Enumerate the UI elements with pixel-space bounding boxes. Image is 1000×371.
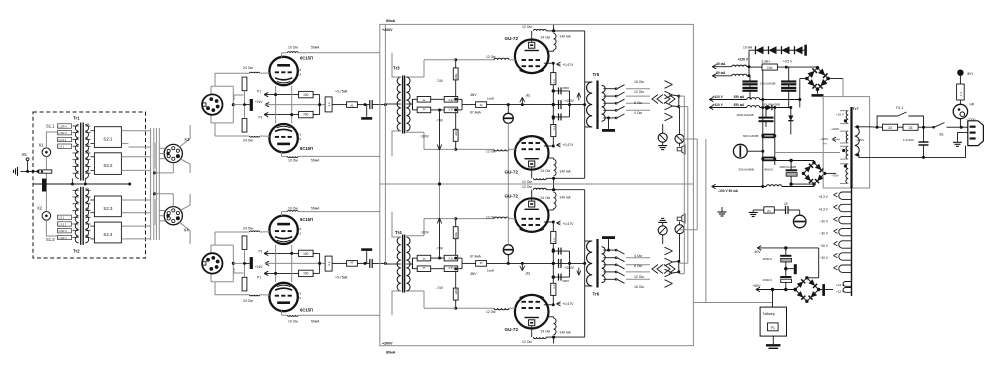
svg-text:1б: 1б bbox=[784, 202, 788, 206]
svg-text:1:3 1: 1:3 1 bbox=[58, 145, 64, 149]
svg-text:~120V: ~120V bbox=[820, 137, 829, 141]
svg-text:4000,0: 4000,0 bbox=[764, 168, 773, 172]
svg-text:10н: 10н bbox=[767, 66, 773, 70]
svg-text:24 Ом: 24 Ом bbox=[541, 169, 551, 173]
svg-text:~30 V: ~30 V bbox=[820, 256, 829, 260]
svg-text:50мА: 50мА bbox=[311, 320, 320, 324]
svg-text:+16V: +16V bbox=[255, 265, 263, 269]
svg-text:Тr2: Тr2 bbox=[73, 249, 80, 254]
svg-text:4000,0х450В: 4000,0х450В bbox=[780, 165, 797, 169]
svg-text:1:1/R 4: 1:1/R 4 bbox=[58, 236, 67, 240]
svg-text:Тr1: Тr1 bbox=[73, 116, 80, 121]
svg-text:4 Ом: 4 Ом bbox=[634, 111, 642, 115]
svg-text:-100V: -100V bbox=[420, 135, 430, 139]
svg-text:4000,0х400В: 4000,0х400В bbox=[737, 113, 754, 117]
svg-text:~30 V: ~30 V bbox=[820, 231, 829, 235]
svg-text:1:3 1: 1:3 1 bbox=[58, 216, 64, 220]
svg-text:-100V: -100V bbox=[420, 231, 430, 235]
svg-text:4 Ом: 4 Ом bbox=[634, 254, 642, 258]
svg-text:~30 V: ~30 V bbox=[820, 219, 829, 223]
svg-text:50мА: 50мА bbox=[311, 46, 320, 50]
svg-text:+0,5 V: +0,5 V bbox=[783, 59, 793, 63]
svg-text:+0,47V: +0,47V bbox=[563, 222, 575, 226]
svg-text:16 Ом: 16 Ом bbox=[634, 285, 644, 289]
svg-text:ФУ1: ФУ1 bbox=[967, 72, 973, 76]
svg-text:~220V: ~220V bbox=[831, 127, 840, 131]
svg-text:1:2/R 3: 1:2/R 3 bbox=[58, 131, 67, 135]
svg-text:Таймер: Таймер bbox=[763, 312, 775, 316]
svg-text:12 Ом: 12 Ом bbox=[522, 180, 532, 184]
svg-text:12 Ом: 12 Ом bbox=[486, 216, 496, 220]
svg-text:+0,75кВ: +0,75кВ bbox=[335, 90, 348, 94]
svg-text:87,4мА: 87,4мА bbox=[470, 255, 482, 259]
svg-text:+0,75кВ: +0,75кВ bbox=[335, 276, 348, 280]
svg-text:2000,0: 2000,0 bbox=[763, 257, 773, 261]
svg-text:50мА: 50мА bbox=[311, 207, 320, 211]
svg-text:Тr7: Тr7 bbox=[853, 106, 860, 111]
svg-text:600,0х450В: 600,0х450В bbox=[743, 134, 759, 138]
svg-text:6С15П: 6С15П bbox=[300, 146, 313, 151]
svg-text:140 мА: 140 мА bbox=[560, 196, 572, 200]
svg-text:10 Ом: 10 Ом bbox=[288, 320, 298, 324]
svg-text:350 мА: 350 мА bbox=[734, 103, 746, 107]
svg-text:100,0х450В: 100,0х450В bbox=[760, 81, 776, 85]
svg-text:6С15П: 6С15П bbox=[300, 55, 313, 60]
svg-text:10 мА: 10 мА bbox=[743, 46, 753, 50]
svg-text:2000,0: 2000,0 bbox=[763, 278, 773, 282]
svg-text:~50V: ~50V bbox=[832, 174, 839, 178]
svg-text:-74V: -74V bbox=[436, 247, 444, 251]
svg-text:24 Ом: 24 Ом bbox=[541, 330, 551, 334]
svg-text:10 Ом: 10 Ом bbox=[288, 46, 298, 50]
svg-text:6С15П: 6С15П bbox=[300, 217, 313, 222]
svg-text:24 Ом: 24 Ом bbox=[243, 299, 253, 303]
svg-text:S2.1: S2.1 bbox=[103, 137, 113, 142]
svg-text:8 Ом: 8 Ом bbox=[634, 264, 642, 268]
svg-text:-74V: -74V bbox=[436, 286, 444, 290]
svg-text:+0,47V: +0,47V bbox=[563, 302, 575, 306]
svg-text:8 Ом: 8 Ом bbox=[634, 101, 642, 105]
svg-text:S2.3: S2.3 bbox=[103, 206, 113, 211]
svg-text:~220V: ~220V bbox=[966, 118, 976, 122]
svg-text:140 мА: 140 мА bbox=[560, 331, 572, 335]
svg-text:12 Ом: 12 Ом bbox=[522, 185, 532, 189]
svg-text:Тr6: Тr6 bbox=[593, 292, 600, 297]
svg-text:1,0х400: 1,0х400 bbox=[903, 138, 914, 142]
svg-text:GU-72: GU-72 bbox=[505, 36, 519, 41]
svg-text:П1.1: П1.1 bbox=[896, 106, 903, 110]
svg-text:-74V: -74V bbox=[436, 79, 444, 83]
svg-text:X1: X1 bbox=[39, 143, 45, 148]
svg-text:+0,47V: +0,47V bbox=[563, 63, 575, 67]
svg-text:12 Ом: 12 Ом bbox=[486, 55, 496, 59]
svg-text:Л1: Л1 bbox=[767, 209, 771, 213]
svg-text:Тr3: Тr3 bbox=[393, 66, 400, 71]
svg-text:+16V: +16V bbox=[255, 100, 263, 104]
svg-text:+200V: +200V bbox=[382, 342, 393, 346]
svg-text:-50V: -50V bbox=[754, 250, 762, 254]
svg-text:350 мА: 350 мА bbox=[734, 95, 746, 99]
svg-text:10 Ом: 10 Ом bbox=[288, 207, 298, 211]
svg-text:X3: X3 bbox=[184, 137, 190, 142]
svg-text:GU-72: GU-72 bbox=[505, 327, 519, 332]
svg-text:300,0х450В: 300,0х450В bbox=[739, 168, 755, 172]
svg-text:Тr5: Тr5 bbox=[593, 72, 600, 77]
svg-text:87,4мА: 87,4мА bbox=[470, 111, 482, 115]
svg-text:+12 V: +12 V bbox=[836, 290, 845, 294]
svg-text:3,3кН: 3,3кН bbox=[762, 59, 771, 63]
svg-text:Р1: Р1 bbox=[257, 90, 261, 94]
svg-text:+410 V: +410 V bbox=[713, 95, 724, 99]
svg-text:12 Ом: 12 Ом bbox=[486, 150, 496, 154]
svg-text:S2.2: S2.2 bbox=[103, 163, 113, 168]
svg-text:НФ: НФ bbox=[970, 103, 975, 107]
svg-text:Р1: Р1 bbox=[259, 116, 263, 120]
svg-text:10 Ом: 10 Ом bbox=[288, 159, 298, 163]
svg-text:12 Ом: 12 Ом bbox=[634, 90, 644, 94]
svg-text:-85V: -85V bbox=[470, 93, 478, 97]
svg-text:S1.1: S1.1 bbox=[46, 124, 55, 129]
svg-text:X4: X4 bbox=[184, 228, 190, 233]
svg-text:1:2,5 2: 1:2,5 2 bbox=[58, 222, 66, 226]
svg-text:МБЛ: МБЛ bbox=[563, 279, 569, 283]
svg-text:60 мА: 60 мА bbox=[716, 71, 726, 75]
svg-text:12 Ом: 12 Ом bbox=[486, 310, 496, 314]
svg-text:6С15П: 6С15П bbox=[300, 308, 313, 313]
svg-text:+230 V: +230 V bbox=[738, 58, 749, 62]
svg-text:(К): (К) bbox=[526, 272, 531, 276]
svg-text:X2: X2 bbox=[37, 206, 43, 211]
svg-text:X5: X5 bbox=[22, 152, 28, 157]
svg-text:МБЛ: МБЛ bbox=[563, 86, 569, 90]
svg-text:В1: В1 bbox=[940, 133, 944, 137]
svg-text:S2.4: S2.4 bbox=[103, 232, 113, 237]
svg-text:33: 33 bbox=[909, 126, 913, 130]
svg-text:+0,47V: +0,47V bbox=[563, 143, 575, 147]
svg-text:BY169-600В: BY169-600В bbox=[764, 102, 780, 106]
svg-text:40 мА: 40 мА bbox=[716, 62, 726, 66]
svg-text:24 Ом: 24 Ом bbox=[541, 196, 551, 200]
svg-text:-100 V 60 мА: -100 V 60 мА bbox=[718, 189, 739, 193]
svg-text:80мА: 80мА bbox=[386, 351, 396, 355]
svg-text:-74V: -74V bbox=[436, 119, 444, 123]
svg-text:12 Ом: 12 Ом bbox=[522, 340, 532, 344]
svg-text:GU-72: GU-72 bbox=[505, 170, 519, 175]
svg-text:~30 V: ~30 V bbox=[820, 244, 829, 248]
svg-text:+6,3 V: +6,3 V bbox=[819, 207, 829, 211]
svg-text:+6,3 V: +6,3 V bbox=[819, 195, 829, 199]
svg-text:+200V: +200V bbox=[382, 28, 393, 32]
svg-text:+400V: +400V bbox=[564, 99, 575, 103]
svg-text:+12 V: +12 V bbox=[836, 283, 845, 287]
svg-text:24 Ом: 24 Ом bbox=[243, 66, 253, 70]
svg-text:+410 V: +410 V bbox=[713, 103, 724, 107]
svg-text:1:2,5 2: 1:2,5 2 bbox=[58, 138, 66, 142]
svg-text:S1.2: S1.2 bbox=[46, 237, 55, 242]
svg-text:1:2/R 3: 1:2/R 3 bbox=[58, 229, 67, 233]
svg-text:1мкФ: 1мкФ bbox=[487, 97, 495, 101]
svg-text:140 мА: 140 мА bbox=[560, 35, 572, 39]
svg-text:80мА: 80мА bbox=[386, 19, 396, 23]
svg-text:16 Ом: 16 Ом bbox=[634, 80, 644, 84]
svg-text:140 мА: 140 мА bbox=[560, 170, 572, 174]
svg-text:1:1/R 4: 1:1/R 4 bbox=[58, 124, 67, 128]
svg-text:GU-72: GU-72 bbox=[505, 194, 519, 199]
svg-text:(К): (К) bbox=[526, 94, 531, 98]
svg-text:+400V: +400V bbox=[564, 266, 575, 270]
svg-text:24 Ом: 24 Ом bbox=[243, 139, 253, 143]
svg-text:-85V: -85V bbox=[470, 272, 478, 276]
svg-text:+50V: +50V bbox=[753, 284, 762, 288]
svg-text:12 Ом: 12 Ом bbox=[522, 25, 532, 29]
svg-text:Р1: Р1 bbox=[259, 250, 263, 254]
svg-text:50мА: 50мА bbox=[311, 159, 320, 163]
svg-text:1,2: 1,2 bbox=[959, 92, 963, 96]
svg-text:~220V: ~220V bbox=[856, 138, 865, 142]
svg-text:пч: пч bbox=[824, 141, 828, 145]
svg-text:+16 V: +16 V bbox=[836, 112, 844, 116]
svg-text:1мкФ: 1мкФ bbox=[487, 269, 495, 273]
svg-text:24 Ом: 24 Ом bbox=[541, 36, 551, 40]
svg-text:Р1: Р1 bbox=[771, 326, 775, 330]
svg-text:33: 33 bbox=[888, 126, 892, 130]
svg-text:Р1: Р1 bbox=[257, 276, 261, 280]
svg-text:12 Ом: 12 Ом bbox=[634, 275, 644, 279]
svg-text:24 Ом: 24 Ом bbox=[243, 227, 253, 231]
svg-text:Тr4: Тr4 bbox=[395, 230, 402, 235]
